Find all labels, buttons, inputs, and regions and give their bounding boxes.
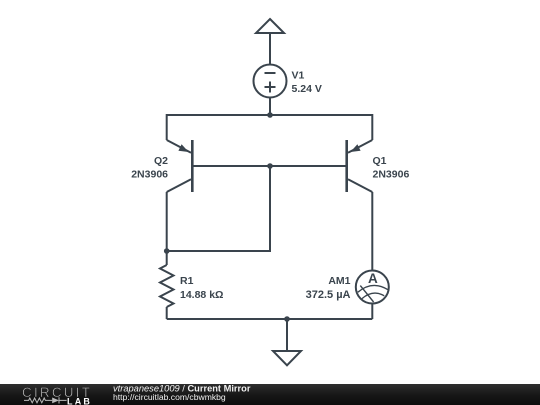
wire top rail with emitter drops [167,115,373,140]
node collector junction [164,248,170,254]
V1 plus sign [265,82,276,93]
node ground junction [284,316,290,322]
ammeter AM1 circle [356,271,389,304]
transistor Q1 base bar [345,140,348,192]
svg-text:R1: R1 [180,275,194,287]
transistor Q2 collector diagonal [167,179,191,192]
voltage source V1 [254,65,287,98]
transistor Q1 collector diagonal [348,179,372,192]
transistor Q2 emitter arrow [178,144,188,152]
wire ground stem [286,319,288,351]
svg-text:5.24 V: 5.24 V [292,83,322,95]
svg-text:V1: V1 [292,70,305,82]
wire Q1 collector to ammeter [371,192,373,270]
svg-text:372.5 µA: 372.5 µA [306,289,351,301]
V1 minus sign [265,72,276,74]
svg-text:2N3906: 2N3906 [131,169,168,181]
wire Q2 collector down [166,192,168,265]
transistor Q1 emitter diagonal [348,140,372,153]
node top rail junction [267,112,273,118]
svg-text:2N3906: 2N3906 [373,169,410,181]
svg-text:Q1: Q1 [373,155,387,167]
wire bottom rail [167,318,373,320]
svg-text:14.88 kΩ: 14.88 kΩ [180,289,223,301]
svg-text:A: A [368,271,378,286]
wire base to collector jumper [167,166,270,251]
ammeter AM1 internals [358,285,388,302]
wire V1 bottom to top rail [269,97,271,115]
footer bar [0,384,540,405]
node base junction [267,163,273,169]
ground symbol [273,351,301,365]
power flag (V+ terminal) [256,19,284,33]
wire R1 bottom [166,307,168,319]
transistor Q2 base bar [191,140,194,192]
svg-text:AM1: AM1 [328,275,350,287]
svg-text:http://circuitlab.com/cbwmkbg: http://circuitlab.com/cbwmkbg [113,392,226,402]
transistor Q2 emitter diagonal [167,140,191,153]
resistor R1 zigzag [160,265,174,307]
wire flag to V1 top [269,33,271,65]
logo diode triangle [52,398,59,404]
svg-text:Q2: Q2 [154,155,168,167]
logo resistor-diode drawing [24,397,67,403]
wire base net Q2 to Q1 [193,165,346,167]
wire AM1 bottom [371,304,373,319]
transistor Q1 emitter arrow [350,144,360,152]
svg-text:LAB: LAB [67,396,92,405]
